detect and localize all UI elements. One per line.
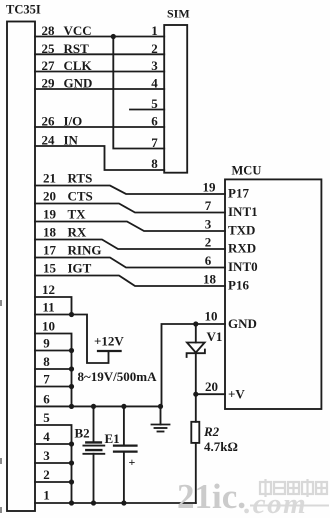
node pin3 junction bbox=[69, 460, 74, 465]
svg-text:E1: E1 bbox=[105, 431, 120, 446]
diode V1 zener bbox=[187, 343, 205, 358]
node pin9 junction bbox=[69, 348, 74, 353]
wire pin2 row bbox=[35, 481, 72, 483]
svg-text:RX: RX bbox=[68, 225, 87, 240]
svg-text:V1: V1 bbox=[207, 329, 223, 344]
svg-text:RXD: RXD bbox=[228, 241, 256, 256]
svg-text:CTS: CTS bbox=[68, 189, 93, 204]
IC U-TC35I body bbox=[7, 22, 35, 512]
svg-text:28: 28 bbox=[42, 23, 56, 38]
svg-text:RST: RST bbox=[64, 41, 90, 56]
wire pin7 row bbox=[35, 386, 72, 388]
svg-text:6: 6 bbox=[151, 114, 158, 129]
wire IGT to P16 bbox=[35, 276, 225, 287]
svg-text:P17: P17 bbox=[228, 186, 249, 201]
svg-text:TXD: TXD bbox=[228, 223, 255, 238]
wire MCU pin20 +V bbox=[196, 393, 225, 395]
svg-text:21: 21 bbox=[43, 171, 56, 186]
svg-text:10: 10 bbox=[42, 319, 55, 334]
svg-text:TX: TX bbox=[68, 207, 87, 222]
power +12V terminal bar bbox=[98, 350, 121, 352]
svg-text:20: 20 bbox=[43, 189, 56, 204]
wire pin10 row down bus to pin6 rail bbox=[35, 334, 72, 407]
svg-text:7: 7 bbox=[151, 135, 158, 150]
svg-text:IN: IN bbox=[64, 133, 79, 148]
wire pin12 row down to pin11 bbox=[35, 297, 72, 315]
watermark .com bbox=[244, 488, 329, 518]
label MCU pin names bbox=[228, 186, 258, 402]
svg-text:4: 4 bbox=[43, 429, 50, 444]
svg-text:15: 15 bbox=[43, 261, 57, 276]
svg-text:1: 1 bbox=[43, 488, 50, 503]
wire pin3 row bbox=[35, 462, 72, 464]
svg-text:4: 4 bbox=[151, 76, 158, 91]
node pin7 junction bbox=[69, 384, 74, 389]
wire pin25 RST row bbox=[35, 53, 164, 55]
svg-text:RTS: RTS bbox=[68, 171, 93, 186]
wire pin6 ground rail bbox=[35, 405, 162, 407]
wire pin4 row bbox=[35, 443, 72, 445]
node SIM VCC junction bbox=[111, 34, 116, 39]
wire pin29 GND row bbox=[35, 88, 164, 90]
watermark chinese blocks bbox=[260, 479, 327, 497]
svg-text:26: 26 bbox=[42, 114, 56, 129]
svg-text:2: 2 bbox=[151, 41, 158, 56]
svg-text:VCC: VCC bbox=[64, 23, 92, 38]
svg-text:CLK: CLK bbox=[64, 58, 93, 73]
svg-text:3: 3 bbox=[205, 217, 212, 232]
svg-text:.com: .com bbox=[244, 488, 307, 518]
svg-text:INT1: INT1 bbox=[228, 204, 258, 219]
svg-text:+V: +V bbox=[228, 387, 245, 402]
wire pin24 IN row to SIM pin8 bbox=[35, 146, 164, 170]
node E1 top junction bbox=[121, 404, 126, 409]
svg-text:RING: RING bbox=[68, 243, 102, 258]
svg-text:25: 25 bbox=[42, 41, 56, 56]
svg-text:MCU: MCU bbox=[232, 164, 262, 178]
wire pin28 VCC row bbox=[35, 36, 164, 38]
svg-text:TC35I: TC35I bbox=[6, 3, 41, 17]
svg-text:IGT: IGT bbox=[68, 261, 92, 276]
wire CTS to INT1 bbox=[35, 204, 225, 213]
svg-text:+12V: +12V bbox=[94, 334, 124, 349]
svg-text:8~19V/500mA: 8~19V/500mA bbox=[78, 369, 158, 384]
svg-text:8: 8 bbox=[43, 354, 50, 369]
svg-text:2: 2 bbox=[205, 235, 212, 250]
label TC35I lower pin numbers bbox=[42, 282, 55, 503]
wire pin26 I/O row bbox=[35, 126, 164, 128]
wire VCC branch to SIM pin7 bbox=[113, 37, 164, 149]
wire pin11 row to +12V elbow bbox=[35, 315, 109, 364]
ground symbol bbox=[152, 406, 170, 431]
svg-text:18: 18 bbox=[43, 225, 57, 240]
svg-text:1: 1 bbox=[151, 23, 158, 38]
wire R2 to bottom rail bbox=[195, 443, 197, 503]
wire RTS to P17 bbox=[35, 186, 225, 195]
svg-text:+: + bbox=[129, 455, 136, 469]
wire TX to TXD bbox=[35, 222, 225, 232]
wire SIM pin5 stub bbox=[130, 109, 164, 111]
svg-text:29: 29 bbox=[42, 76, 56, 91]
svg-text:B2: B2 bbox=[75, 426, 90, 441]
svg-text:7: 7 bbox=[43, 372, 50, 387]
node pin4 junction bbox=[69, 441, 74, 446]
battery B2 bbox=[83, 406, 104, 503]
wire pin8 row bbox=[35, 368, 72, 370]
IC MCU body bbox=[225, 179, 321, 409]
watermark 21ic bbox=[177, 477, 246, 516]
label SIM pin numbers bbox=[151, 23, 158, 171]
wire +V node to R2 bbox=[195, 394, 197, 422]
svg-text:10: 10 bbox=[205, 309, 218, 324]
wire RING to INT0 bbox=[35, 258, 225, 268]
svg-text:GND: GND bbox=[64, 76, 93, 91]
svg-text:INT0: INT0 bbox=[228, 259, 258, 274]
svg-text:5: 5 bbox=[151, 96, 158, 111]
wire RX to RXD bbox=[35, 240, 225, 250]
svg-text:P16: P16 bbox=[228, 278, 249, 293]
svg-text:18: 18 bbox=[203, 272, 217, 287]
node +V pin junction bbox=[193, 392, 198, 397]
node pin6 junction bbox=[69, 404, 74, 409]
wire pin27 CLK row bbox=[35, 71, 164, 73]
svg-text:2: 2 bbox=[43, 467, 50, 482]
svg-text:R2: R2 bbox=[203, 424, 220, 439]
svg-text:3: 3 bbox=[43, 448, 50, 463]
node GND pin junction bbox=[193, 321, 198, 326]
node E1 bottom junction bbox=[121, 500, 126, 505]
scan edge artifacts bbox=[0, 300, 2, 513]
svg-text:19: 19 bbox=[43, 207, 57, 222]
svg-text:9: 9 bbox=[43, 336, 50, 351]
node ground rail junction bbox=[158, 404, 163, 409]
svg-text:7: 7 bbox=[205, 198, 212, 213]
node B2 bottom junction bbox=[91, 500, 96, 505]
svg-text:6: 6 bbox=[205, 253, 212, 268]
connector SIM body bbox=[164, 25, 187, 173]
wire pin1 bottom rail bbox=[35, 502, 196, 504]
svg-text:8: 8 bbox=[151, 156, 158, 171]
wire pin9 row bbox=[35, 350, 72, 352]
capacitor E1 bbox=[114, 406, 137, 503]
node pin2 junction bbox=[69, 479, 74, 484]
node pin8 junction bbox=[69, 366, 74, 371]
svg-text:20: 20 bbox=[205, 379, 218, 394]
svg-text:5: 5 bbox=[43, 410, 50, 425]
svg-text:3: 3 bbox=[151, 58, 158, 73]
svg-text:24: 24 bbox=[42, 133, 56, 148]
svg-text:SIM: SIM bbox=[167, 7, 190, 21]
node pin1 rail junction bbox=[69, 500, 74, 505]
node B2 top junction bbox=[91, 404, 96, 409]
svg-text:11: 11 bbox=[42, 300, 54, 315]
wire V1 cathode to +V node bbox=[195, 353, 197, 394]
wire MCU pin10 GND to ground rail bbox=[162, 324, 226, 406]
node pin11 junction bbox=[69, 312, 74, 317]
svg-text:GND: GND bbox=[228, 316, 257, 331]
resistor R2 body bbox=[191, 422, 199, 443]
svg-text:21ic.: 21ic. bbox=[177, 477, 246, 516]
svg-text:I/O: I/O bbox=[64, 114, 83, 129]
svg-text:12: 12 bbox=[42, 282, 55, 297]
wire node GND to V1 anode bbox=[195, 324, 197, 343]
svg-text:17: 17 bbox=[43, 243, 57, 258]
svg-text:27: 27 bbox=[42, 58, 56, 73]
svg-text:6: 6 bbox=[43, 391, 50, 406]
svg-text:4.7kΩ: 4.7kΩ bbox=[204, 439, 238, 454]
wire pin5 row down bus to pin1 rail bbox=[35, 425, 72, 503]
label MCU pin numbers bbox=[203, 180, 219, 394]
svg-text:19: 19 bbox=[203, 180, 217, 195]
